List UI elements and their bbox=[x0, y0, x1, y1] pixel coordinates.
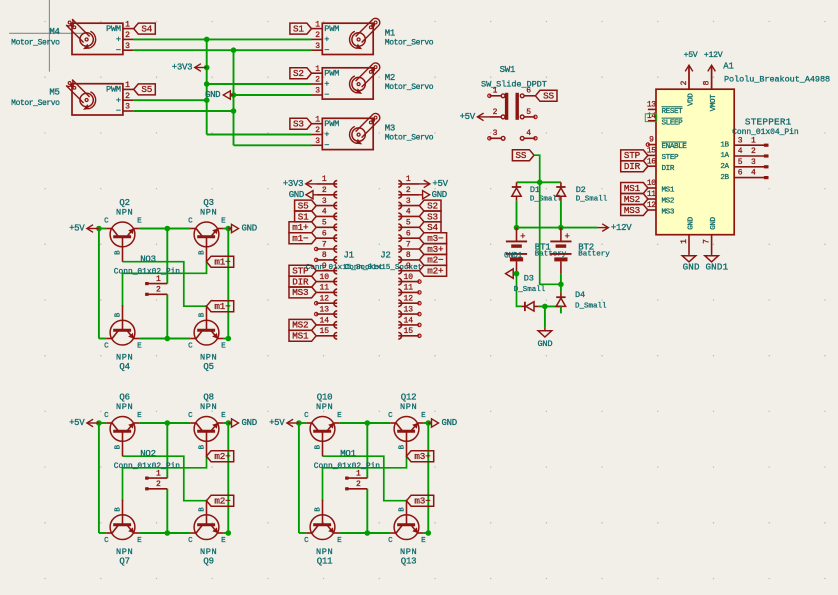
global label m1− J1 pin6 bbox=[289, 233, 316, 244]
svg-text:Q10: Q10 bbox=[317, 392, 333, 402]
svg-text:S4: S4 bbox=[141, 23, 152, 34]
svg-text:2: 2 bbox=[156, 286, 161, 295]
svg-text:2: 2 bbox=[315, 31, 320, 40]
svg-text:GND: GND bbox=[289, 190, 304, 200]
power GND J1 pin2 bbox=[289, 190, 317, 200]
svg-text:−: − bbox=[116, 106, 121, 116]
global label m2- bbox=[207, 495, 234, 506]
svg-text:6: 6 bbox=[322, 230, 327, 239]
global label m2− J2 pin8 bbox=[419, 254, 446, 265]
svg-text:E: E bbox=[337, 537, 342, 545]
svg-text:3: 3 bbox=[125, 103, 130, 112]
svg-text:3: 3 bbox=[493, 129, 498, 138]
svg-text:D_Small: D_Small bbox=[514, 286, 546, 294]
svg-text:E: E bbox=[137, 217, 142, 225]
svg-text:4: 4 bbox=[526, 129, 531, 138]
global label S1 bbox=[290, 23, 312, 34]
svg-text:J2: J2 bbox=[380, 250, 390, 260]
wire mid vertical upper bbox=[166, 229, 168, 284]
power +12V bbox=[597, 223, 632, 233]
diode D1 bbox=[512, 182, 562, 203]
junction bbox=[204, 97, 210, 103]
svg-text:MS3: MS3 bbox=[624, 205, 640, 216]
svg-text:1: 1 bbox=[680, 239, 689, 244]
svg-text:−: − bbox=[324, 45, 329, 55]
power GND NO2 bridge bbox=[228, 418, 257, 428]
svg-text:NPN: NPN bbox=[116, 352, 133, 362]
svg-text:S3: S3 bbox=[293, 119, 304, 130]
svg-text:NPN: NPN bbox=[200, 207, 217, 217]
svg-text:GND: GND bbox=[442, 418, 457, 428]
wire M5.2 to bus1 bbox=[134, 99, 207, 101]
svg-text:+5V: +5V bbox=[684, 51, 698, 60]
svg-text:B: B bbox=[314, 507, 322, 512]
svg-text:GND GND1: GND GND1 bbox=[683, 262, 729, 273]
junction bbox=[514, 225, 520, 231]
power GND A4988 pin1 bbox=[682, 253, 696, 262]
svg-text:12: 12 bbox=[403, 295, 413, 304]
svg-text:10: 10 bbox=[647, 179, 656, 188]
wire base QTR to QBL bbox=[323, 456, 407, 501]
svg-text:6: 6 bbox=[526, 87, 531, 96]
svg-text:1: 1 bbox=[156, 469, 161, 478]
svg-text:Conn_01x02_Pin: Conn_01x02_Pin bbox=[114, 268, 181, 277]
svg-text:S3: S3 bbox=[427, 211, 438, 222]
power GND1 at BT1 bbox=[504, 252, 523, 279]
svg-text:MO1: MO1 bbox=[340, 449, 356, 459]
svg-text:RESET: RESET bbox=[662, 108, 684, 116]
wire base QTR to QBL bbox=[123, 456, 207, 501]
junction bbox=[165, 226, 171, 232]
svg-text:S2: S2 bbox=[293, 68, 304, 79]
svg-text:S1: S1 bbox=[293, 23, 304, 34]
wire mid vertical lower bbox=[166, 489, 168, 533]
wire right vertical bbox=[227, 229, 229, 339]
wire mid vertical upper bbox=[166, 423, 168, 478]
global label DIR J1 pin10 bbox=[289, 276, 316, 287]
svg-text:1: 1 bbox=[125, 20, 130, 29]
svg-text:11: 11 bbox=[319, 284, 329, 293]
svg-text:+: + bbox=[324, 130, 329, 140]
svg-text:9: 9 bbox=[406, 262, 411, 271]
svg-text:PWM: PWM bbox=[324, 68, 339, 78]
transistor Q8 bbox=[188, 392, 226, 456]
wire D3 to GND node bbox=[539, 305, 562, 307]
svg-text:A1: A1 bbox=[723, 62, 733, 72]
global label S2 J2 pin3 bbox=[419, 200, 441, 211]
transistor Q9 bbox=[188, 500, 226, 567]
svg-text:+: + bbox=[324, 79, 329, 89]
svg-text:SS: SS bbox=[516, 150, 527, 161]
svg-text:3: 3 bbox=[315, 42, 320, 51]
global label STP A4988 bbox=[621, 150, 648, 161]
svg-text:2: 2 bbox=[125, 92, 130, 101]
svg-text:8: 8 bbox=[322, 251, 327, 260]
svg-text:S5: S5 bbox=[141, 84, 152, 95]
svg-text:3: 3 bbox=[738, 136, 743, 145]
svg-text:2: 2 bbox=[315, 76, 320, 85]
svg-text:2: 2 bbox=[493, 108, 498, 117]
svg-text:6: 6 bbox=[406, 230, 411, 239]
svg-text:NPN: NPN bbox=[116, 402, 133, 412]
junction bbox=[165, 420, 171, 426]
junction bbox=[165, 336, 171, 342]
svg-text:Q8: Q8 bbox=[203, 392, 213, 402]
global label SS SW1 pin6 bbox=[535, 90, 557, 101]
svg-text:1: 1 bbox=[315, 115, 320, 124]
svg-text:NPN: NPN bbox=[316, 547, 333, 557]
svg-text:4: 4 bbox=[738, 147, 743, 156]
svg-text:15: 15 bbox=[319, 327, 329, 336]
junction bbox=[226, 336, 232, 342]
global label S2 bbox=[290, 68, 312, 79]
svg-text:NPN: NPN bbox=[116, 207, 133, 217]
svg-text:m1+: m1+ bbox=[214, 257, 231, 268]
svg-text:J1: J1 bbox=[343, 250, 353, 260]
svg-text:+3V3: +3V3 bbox=[283, 179, 303, 189]
svg-text:MS2: MS2 bbox=[292, 320, 308, 331]
svg-text:m1−: m1− bbox=[214, 301, 231, 312]
svg-text:15: 15 bbox=[403, 327, 413, 336]
junction bbox=[426, 530, 432, 536]
svg-text:4: 4 bbox=[406, 208, 411, 217]
svg-text:E: E bbox=[137, 537, 142, 545]
svg-text:GND: GND bbox=[205, 90, 220, 100]
wire left vertical bbox=[298, 423, 300, 533]
svg-text:3: 3 bbox=[315, 137, 320, 146]
wire BT1 to D3 bbox=[517, 274, 522, 307]
svg-text:MS1: MS1 bbox=[292, 331, 309, 342]
global label MS3 A4988 bbox=[621, 205, 648, 216]
svg-text:m2−: m2− bbox=[427, 255, 444, 266]
svg-text:Motor_Servo: Motor_Servo bbox=[385, 134, 434, 143]
svg-text:Q12: Q12 bbox=[401, 392, 417, 402]
power +12V A4988 VMOT bbox=[704, 51, 723, 89]
svg-text:C: C bbox=[388, 537, 393, 545]
svg-text:+12V: +12V bbox=[611, 223, 632, 233]
svg-text:E: E bbox=[221, 412, 226, 420]
power GND servo bus bbox=[205, 90, 234, 100]
connector NO3 bbox=[114, 254, 181, 294]
svg-text:D_Small: D_Small bbox=[576, 196, 608, 204]
svg-text:C: C bbox=[388, 412, 393, 420]
wire servo +3V3 rail M4.2 to M1.2 bbox=[134, 38, 312, 40]
global label DIR A4988 bbox=[621, 161, 648, 172]
svg-text:m2+: m2+ bbox=[214, 451, 231, 462]
svg-text:NPN: NPN bbox=[200, 547, 217, 557]
svg-text:C: C bbox=[304, 537, 309, 545]
svg-text:+5V: +5V bbox=[432, 179, 448, 189]
svg-text:C: C bbox=[188, 217, 193, 225]
junction bbox=[558, 282, 564, 288]
transistor Q13 bbox=[388, 500, 426, 567]
transistor Q6 bbox=[104, 392, 142, 456]
svg-text:Q9: Q9 bbox=[203, 556, 213, 566]
svg-text:1: 1 bbox=[156, 275, 161, 284]
svg-text:MS2: MS2 bbox=[624, 194, 640, 205]
junction bbox=[204, 37, 210, 43]
power GND NO3 bridge bbox=[228, 224, 257, 234]
wire bottom rail bbox=[299, 532, 306, 534]
wire M5.3 to bus2 bbox=[134, 110, 234, 112]
svg-text:S1: S1 bbox=[298, 211, 309, 222]
wire top rail bbox=[99, 422, 106, 424]
power +5V J2 pin1 bbox=[419, 179, 448, 189]
wire +12V rail bbox=[517, 227, 598, 229]
wire base QTL to QBR bbox=[323, 456, 407, 501]
svg-text:MS1: MS1 bbox=[662, 187, 675, 195]
junction bbox=[365, 420, 371, 426]
global label m1- bbox=[207, 301, 234, 312]
motor servo M1 bbox=[312, 18, 434, 55]
wire top rail bbox=[299, 422, 306, 424]
svg-text:+: + bbox=[116, 35, 121, 45]
svg-text:GND1: GND1 bbox=[504, 252, 523, 261]
wire base QTR to QBL bbox=[123, 262, 207, 307]
svg-text:NPN: NPN bbox=[400, 402, 417, 412]
connector J2 bbox=[345, 175, 422, 339]
power +5V NO2 bridge bbox=[69, 418, 99, 428]
svg-text:B: B bbox=[198, 312, 206, 317]
unconnected pin 9 bbox=[646, 143, 649, 146]
svg-text:+12V: +12V bbox=[704, 51, 723, 60]
svg-text:14: 14 bbox=[319, 316, 329, 325]
svg-text:DIR: DIR bbox=[292, 276, 309, 287]
svg-text:MS3: MS3 bbox=[292, 287, 308, 298]
wire mid vertical lower bbox=[166, 294, 168, 338]
svg-text:STP: STP bbox=[292, 266, 309, 277]
global label S4 J2 pin5 bbox=[419, 222, 441, 233]
svg-text:VDD: VDD bbox=[688, 93, 696, 106]
svg-text:14: 14 bbox=[647, 112, 656, 121]
junction bbox=[296, 420, 302, 426]
transistor Q5 bbox=[188, 305, 226, 372]
motor servo M2 bbox=[312, 63, 434, 100]
svg-text:12: 12 bbox=[319, 295, 329, 304]
svg-text:M4: M4 bbox=[49, 27, 59, 37]
svg-text:14: 14 bbox=[403, 316, 413, 325]
svg-text:E: E bbox=[137, 343, 142, 351]
svg-text:MS2: MS2 bbox=[662, 198, 675, 206]
svg-text:5: 5 bbox=[406, 219, 411, 228]
wire bus1 vertical +3V3 bbox=[206, 39, 208, 134]
svg-text:+5V: +5V bbox=[69, 418, 85, 428]
junction bbox=[231, 108, 237, 114]
svg-text:D_Small: D_Small bbox=[575, 303, 607, 311]
svg-text:B: B bbox=[314, 444, 322, 449]
svg-text:SW_Slide_DPDT: SW_Slide_DPDT bbox=[481, 79, 547, 89]
wire D4 tail bbox=[560, 306, 562, 313]
svg-text:C: C bbox=[188, 537, 193, 545]
svg-text:+: + bbox=[116, 95, 121, 105]
power GND MO1 bridge bbox=[428, 418, 457, 428]
svg-text:13: 13 bbox=[647, 101, 656, 110]
svg-text:+: + bbox=[564, 232, 569, 242]
power GND J2 pin2 bbox=[419, 190, 447, 200]
svg-text:2: 2 bbox=[406, 186, 411, 195]
svg-text:1: 1 bbox=[751, 136, 756, 145]
svg-text:Q5: Q5 bbox=[203, 362, 213, 372]
junction bbox=[231, 92, 237, 98]
svg-text:D1: D1 bbox=[530, 185, 540, 195]
junction bbox=[558, 225, 564, 231]
svg-text:3: 3 bbox=[125, 42, 130, 51]
svg-text:m1−: m1− bbox=[292, 233, 309, 244]
svg-text:2: 2 bbox=[125, 31, 130, 40]
svg-text:Pololu_Breakout_A4988: Pololu_Breakout_A4988 bbox=[724, 74, 830, 84]
connector NO2 bbox=[114, 449, 181, 489]
transistor Q10 bbox=[304, 392, 342, 456]
svg-text:C: C bbox=[104, 217, 109, 225]
svg-text:Q11: Q11 bbox=[317, 556, 333, 566]
battery BT2 bbox=[550, 228, 610, 274]
svg-text:NO2: NO2 bbox=[140, 449, 156, 459]
junction bbox=[537, 180, 543, 186]
transistor Q4 bbox=[104, 305, 142, 372]
svg-text:B: B bbox=[398, 444, 406, 449]
svg-text:5: 5 bbox=[526, 108, 531, 117]
wire left vertical bbox=[98, 423, 100, 533]
svg-text:1: 1 bbox=[322, 175, 327, 184]
svg-text:NPN: NPN bbox=[316, 402, 333, 412]
svg-text:M3: M3 bbox=[385, 124, 395, 134]
svg-text:1: 1 bbox=[356, 469, 361, 478]
svg-text:11: 11 bbox=[647, 190, 656, 199]
svg-text:DIR: DIR bbox=[662, 165, 675, 173]
svg-text:Q2: Q2 bbox=[119, 198, 129, 208]
diode D4 bbox=[556, 290, 607, 311]
svg-text:B: B bbox=[398, 507, 406, 512]
svg-text:m3−: m3− bbox=[414, 496, 431, 507]
wire bus2 to M3.3 bbox=[234, 144, 312, 146]
svg-text:2: 2 bbox=[356, 480, 361, 489]
svg-text:E: E bbox=[221, 537, 226, 545]
global label S5 J1 pin3 bbox=[295, 200, 317, 211]
global label SS feed bbox=[512, 150, 534, 161]
junction bbox=[542, 304, 548, 310]
junction bbox=[365, 530, 371, 536]
power +5V MO1 bridge bbox=[269, 418, 299, 428]
svg-text:5: 5 bbox=[322, 219, 327, 228]
junction bbox=[514, 271, 520, 277]
junction bbox=[165, 530, 171, 536]
wire D2 to +12V rail bbox=[560, 201, 562, 228]
transistor Q12 bbox=[388, 392, 426, 456]
global label m3+ bbox=[407, 451, 434, 462]
svg-text:6: 6 bbox=[738, 169, 743, 178]
svg-text:−: − bbox=[324, 90, 329, 100]
global label m2+ J2 pin9 bbox=[419, 265, 446, 276]
power +5V SW1 pin2 bbox=[460, 112, 490, 122]
wire bus1 to M3.2 bbox=[207, 134, 312, 136]
switch SW1 SW_Slide_DPDT bbox=[481, 65, 547, 140]
svg-text:C: C bbox=[304, 412, 309, 420]
svg-text:PWM: PWM bbox=[106, 24, 121, 34]
svg-text:GND: GND bbox=[538, 339, 553, 349]
svg-text:STP: STP bbox=[624, 150, 641, 161]
svg-text:−: − bbox=[116, 45, 121, 55]
svg-text:1A: 1A bbox=[720, 152, 729, 160]
svg-text:Q6: Q6 bbox=[119, 392, 129, 402]
svg-text:D4: D4 bbox=[575, 290, 585, 300]
motor servo M5 bbox=[11, 80, 134, 117]
svg-text:PWM: PWM bbox=[106, 85, 121, 95]
svg-text:10: 10 bbox=[403, 273, 413, 282]
svg-text:M1: M1 bbox=[385, 29, 395, 39]
svg-text:E: E bbox=[137, 412, 142, 420]
svg-text:+3V3: +3V3 bbox=[172, 63, 192, 73]
global label m1+ J1 pin5 bbox=[289, 222, 316, 233]
global label MS3 J1 pin11 bbox=[289, 287, 316, 298]
global label MS1 J1 pin15 bbox=[289, 330, 316, 341]
svg-text:3: 3 bbox=[322, 197, 327, 206]
svg-text:B: B bbox=[114, 444, 122, 449]
motor servo M3 bbox=[312, 113, 434, 150]
svg-text:E: E bbox=[337, 412, 342, 420]
svg-text:1: 1 bbox=[493, 87, 498, 96]
global label MS2 A4988 bbox=[621, 194, 648, 205]
svg-text:+: + bbox=[324, 35, 329, 45]
svg-text:M5: M5 bbox=[49, 87, 59, 97]
motor servo M4 bbox=[11, 19, 134, 55]
svg-text:4: 4 bbox=[322, 208, 327, 217]
svg-text:9: 9 bbox=[649, 136, 654, 145]
svg-text:B: B bbox=[198, 444, 206, 449]
svg-text:NPN: NPN bbox=[116, 547, 133, 557]
svg-text:3: 3 bbox=[315, 87, 320, 96]
junction bbox=[226, 226, 232, 232]
svg-text:1: 1 bbox=[315, 65, 320, 74]
svg-text:1: 1 bbox=[125, 81, 130, 90]
wire bus2 vertical GND bbox=[233, 50, 235, 145]
svg-text:Q13: Q13 bbox=[401, 556, 417, 566]
svg-text:9: 9 bbox=[322, 262, 327, 271]
power +3V3 J1 pin1 bbox=[283, 179, 316, 189]
svg-text:7: 7 bbox=[322, 240, 327, 249]
svg-text:3: 3 bbox=[751, 158, 756, 167]
global label S1 J1 pin4 bbox=[295, 211, 317, 222]
svg-text:Motor_Servo: Motor_Servo bbox=[385, 38, 434, 47]
connector MO1 bbox=[314, 449, 381, 489]
svg-text:1: 1 bbox=[406, 175, 411, 184]
svg-text:C: C bbox=[188, 412, 193, 420]
svg-text:Conn_01x02_Pin: Conn_01x02_Pin bbox=[114, 462, 181, 471]
svg-text:SW1: SW1 bbox=[500, 65, 516, 75]
svg-text:DIR: DIR bbox=[624, 161, 641, 172]
wire D1 to +12V rail bbox=[516, 201, 518, 228]
svg-text:Q4: Q4 bbox=[119, 362, 129, 372]
svg-text:2: 2 bbox=[322, 186, 327, 195]
unconnected pins SW1 bbox=[488, 94, 537, 140]
svg-text:1: 1 bbox=[315, 20, 320, 29]
connector STEPPER1 bbox=[732, 117, 799, 178]
svg-text:−: − bbox=[324, 141, 329, 151]
wire right vertical bbox=[227, 423, 229, 533]
svg-text:D3: D3 bbox=[524, 273, 534, 283]
wire BT2 bottom bbox=[560, 274, 562, 293]
junction bbox=[226, 420, 232, 426]
svg-text:GND: GND bbox=[710, 216, 718, 229]
junction bbox=[426, 420, 432, 426]
svg-text:+5V: +5V bbox=[269, 418, 285, 428]
power +5V NO3 bridge bbox=[69, 224, 99, 234]
svg-text:m3−: m3− bbox=[427, 233, 444, 244]
svg-text:7: 7 bbox=[406, 240, 411, 249]
wire servo GND rail M4.3 to M1.3 bbox=[134, 49, 312, 51]
power +3V3 servo bus bbox=[172, 63, 207, 73]
svg-text:STEP: STEP bbox=[662, 154, 679, 162]
ERC marker on pin 14 bbox=[645, 114, 656, 122]
